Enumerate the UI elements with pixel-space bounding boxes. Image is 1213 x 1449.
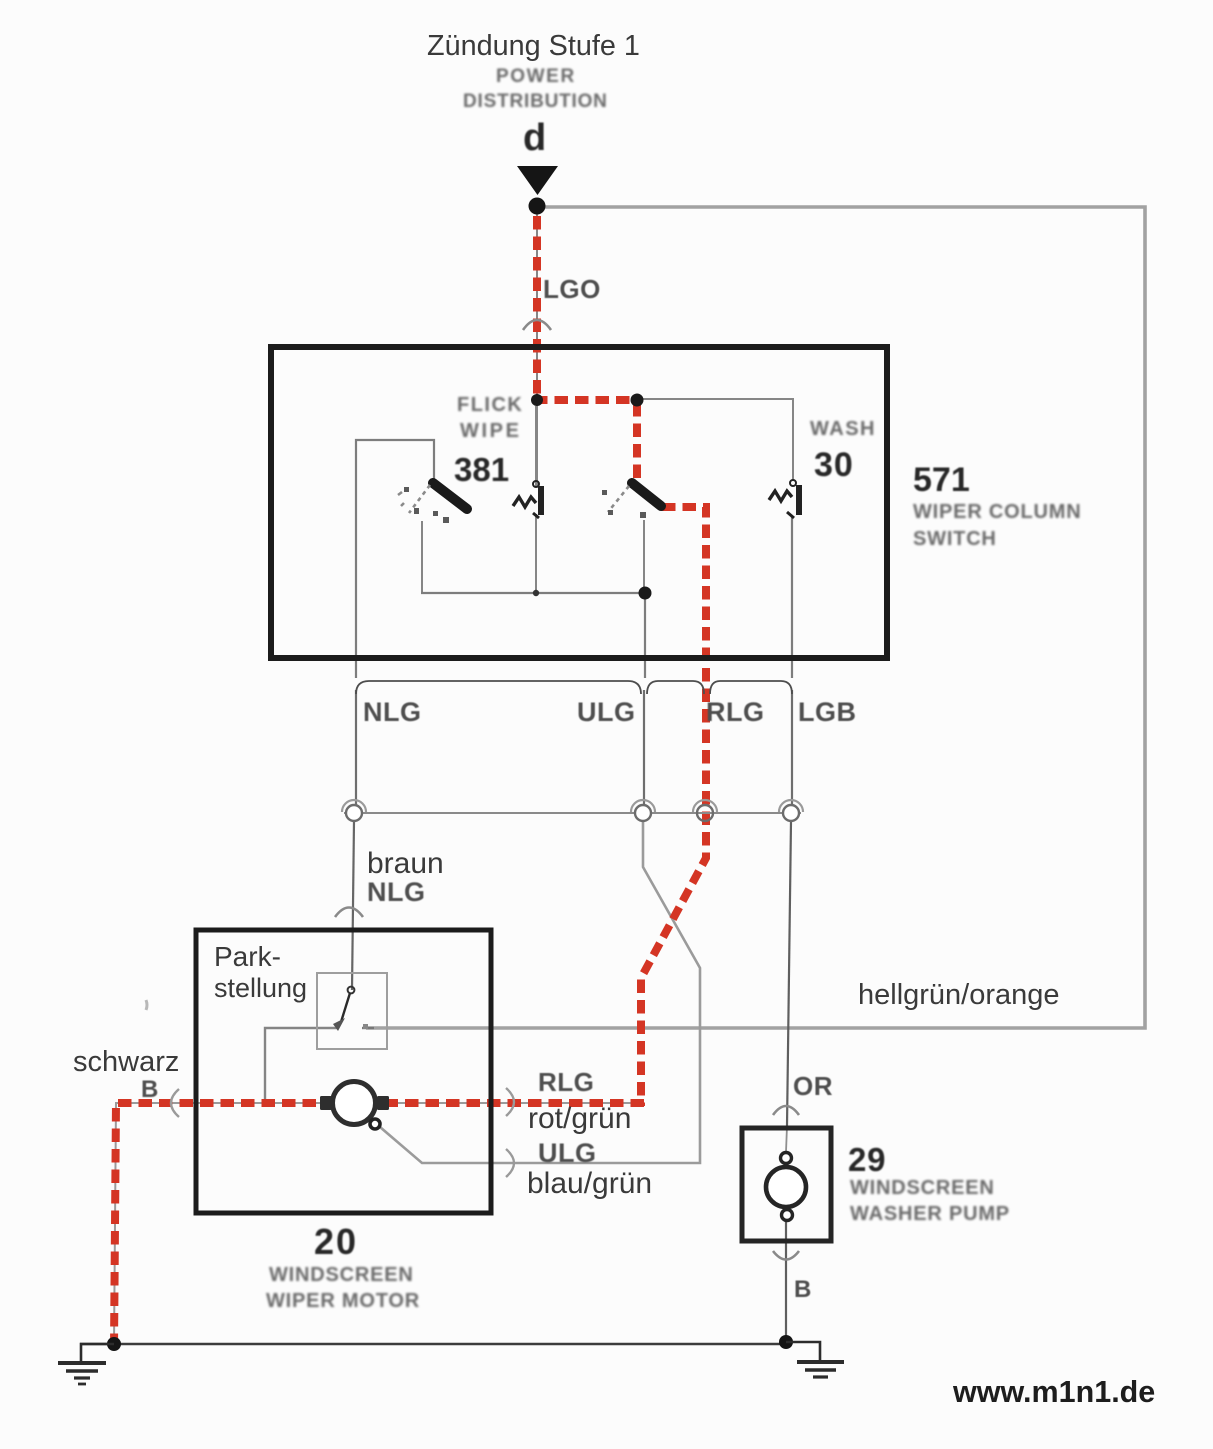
connector circle LGB: [783, 805, 799, 821]
connector bump arcs: [342, 800, 803, 812]
flick contact assembly zigzag and bar: [513, 481, 541, 518]
wire black/B under-wire from motor to left ground: [114, 1103, 641, 1344]
power distribution triangle d: [517, 166, 558, 195]
label WASH: [810, 418, 876, 441]
wire ULG segment bracket to connector: [643, 690, 645, 806]
wire bus inside switch box: [421, 592, 645, 594]
washer pump bottom terminal: [782, 1210, 793, 1221]
label 20: [314, 1221, 358, 1263]
bracket NLG-ULG below box: [356, 681, 641, 694]
label stellung: [214, 973, 307, 1004]
washer pump motor circle: [766, 1167, 806, 1207]
wire ULG gray from connector crossing to motor brush: [380, 821, 700, 1163]
label 30: [814, 446, 854, 485]
wipe switch arm: [632, 483, 661, 506]
label rot/gruen: [528, 1102, 631, 1136]
hook RLG motor box right exit: [506, 1088, 514, 1116]
motor circle: [333, 1082, 376, 1125]
hook NLG motor box entry: [335, 908, 363, 918]
switch box 571 outline: [271, 347, 887, 658]
label Zuendung Stufe 1: [427, 30, 640, 63]
label ULG: [577, 697, 636, 728]
label RLG motor: [538, 1067, 594, 1098]
wire through washer pump box: [786, 1126, 787, 1152]
label OR: [793, 1071, 833, 1102]
flick switch speck marks: [404, 487, 449, 523]
hook OR washer pump entry: [773, 1106, 799, 1115]
motor lower brush terminal: [370, 1119, 380, 1129]
wire NLG segment bracket to connector: [355, 690, 357, 806]
label WIPER MOTOR: [266, 1290, 420, 1313]
hook ULG motor box right exit: [506, 1149, 514, 1177]
bracket ULG-RLG below box: [647, 681, 704, 694]
washer pump top terminal: [781, 1153, 792, 1164]
label ULG motor: [538, 1138, 597, 1169]
node right ground junction: [779, 1335, 793, 1349]
flick switch ghost arm marks: [398, 485, 430, 513]
node box top left junction: [531, 394, 543, 406]
label WASHER PUMP: [850, 1203, 1010, 1226]
label terminal d: [523, 117, 546, 160]
wire NLG from connector down into motor box to park contact: [352, 821, 354, 990]
red highlighted path LGO drop: [114, 216, 706, 1347]
node bus small junction: [533, 590, 539, 596]
wire OR from LGB connector down to washer pump: [787, 821, 791, 1126]
label Park-: [214, 941, 281, 973]
node bus ULG junction: [639, 587, 652, 600]
label POWER: [496, 66, 576, 88]
label LGO: [543, 274, 601, 305]
motor box 20 outline: [196, 930, 491, 1213]
label hellgruen/orange: [858, 979, 1060, 1012]
label braun: [367, 847, 444, 881]
label 571: [913, 461, 970, 500]
hook LGO wire connector arc: [523, 320, 551, 330]
park switch inner box: [317, 973, 387, 1049]
connector row line: [344, 812, 801, 814]
label WINDSCREEN pump: [850, 1177, 995, 1200]
label WINDSCREEN motor: [269, 1264, 414, 1287]
wire ground bus along bottom: [80, 1343, 786, 1346]
flick switch 381 arm: [433, 483, 467, 509]
node box top right junction: [631, 394, 644, 407]
washer pump box 29 outline: [742, 1128, 831, 1241]
label WIPER COLUMN: [913, 501, 1081, 524]
wire wash contact lead down out of box: [791, 516, 793, 678]
node power junction: [529, 198, 546, 215]
label WIPE: [460, 420, 522, 443]
wire LGB segment bracket to connector: [791, 690, 793, 806]
red highlighted path from switch arm to RLG and down with crossover: [641, 507, 706, 1106]
scan artifact mark left margin: [146, 1000, 147, 1010]
wipe switch speck marks: [602, 490, 646, 518]
label RLG: [706, 697, 765, 728]
hook B motor box left exit arcs: [171, 1089, 179, 1117]
connector circle RLG: [697, 805, 713, 821]
park switch arm with arrowhead: [341, 993, 350, 1022]
red highlighted path down to wipe switch: [633, 403, 641, 479]
wire park switch left lead to motor B wire: [265, 1028, 338, 1103]
park switch top contact: [348, 987, 355, 994]
wire gray branch to wash switch inside box: [639, 399, 793, 481]
wash contact assembly zigzag and bar: [769, 480, 799, 518]
hook B washer pump exit: [773, 1251, 799, 1260]
connector circle NLG: [346, 805, 362, 821]
wire flick switch fixed contact lead down to bus: [421, 521, 423, 593]
wire hellgruen/orange long gray loop from power node to park switch: [366, 207, 1145, 1028]
label www.m1n1.de: [953, 1375, 1155, 1410]
label NLG: [363, 697, 422, 728]
label B motor: [141, 1076, 159, 1104]
label blau/gruen: [527, 1167, 652, 1201]
connector circle ULG: [635, 805, 651, 821]
label schwarz: [73, 1046, 179, 1079]
label SWITCH: [913, 528, 997, 551]
label LGB: [798, 697, 857, 728]
label 29: [848, 1141, 886, 1179]
wire NLG from flick switch pivot down out of box: [356, 440, 434, 678]
wipe switch ghost arm marks: [608, 486, 629, 512]
motor left brush: [320, 1096, 332, 1110]
red highlighted path B wire to left and down to ground: [114, 1103, 644, 1347]
label FLICK: [457, 394, 523, 417]
bracket RLG-LGB below box: [710, 681, 792, 694]
ground symbol right: [786, 1342, 844, 1377]
park switch right contact: [362, 1027, 374, 1029]
label B pump: [794, 1276, 812, 1304]
wire wipe switch fixed contact lead: [643, 520, 645, 593]
label 381: [454, 451, 509, 489]
motor right brush: [377, 1096, 389, 1110]
ground symbol left: [58, 1344, 114, 1384]
wire LGO under-wire from power node into switch box: [536, 212, 538, 486]
wire ULG from bus junction down out of box: [644, 593, 646, 678]
red highlighted path across box top: [534, 396, 640, 404]
label DISTRIBUTION: [463, 91, 608, 113]
wire middle contact leads: [535, 406, 537, 486]
node left ground junction: [107, 1337, 121, 1351]
label NLG braun: [367, 877, 426, 908]
